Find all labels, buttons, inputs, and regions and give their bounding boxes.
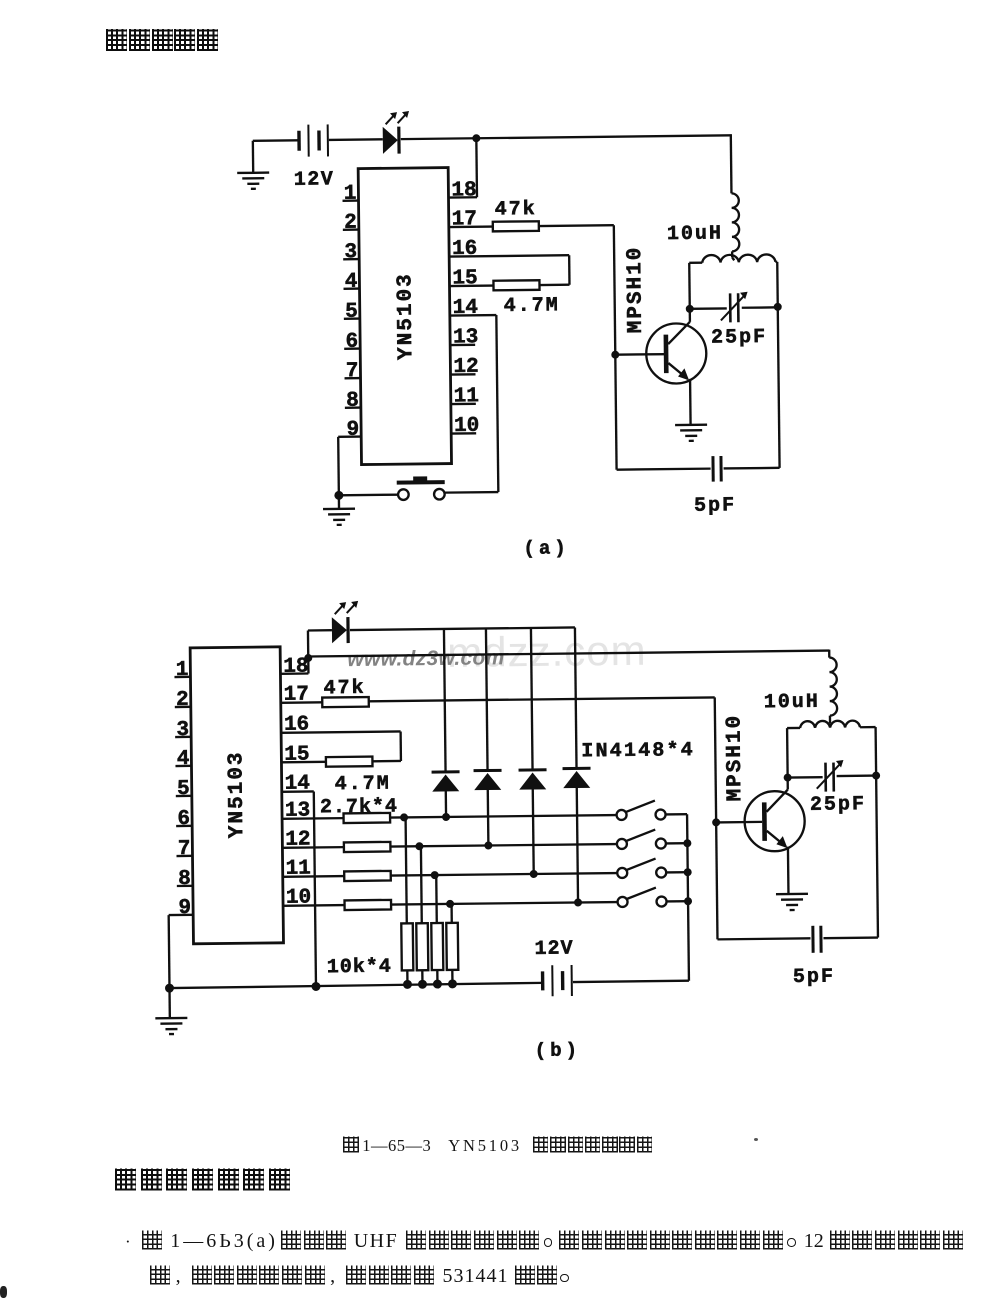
resistor R4 4.7M (326, 756, 401, 796)
bottom wire with 5pF b (717, 938, 877, 940)
svg-text:17: 17 (452, 208, 477, 231)
pin 14 + wire to ground bus (282, 772, 316, 986)
svg-text:4.7M: 4.7M (335, 773, 391, 797)
svg-text:4: 4 (177, 748, 190, 771)
CIRCUIT A SVG (0, 0, 992, 580)
svg-text:13: 13 (453, 326, 478, 349)
paragraph line 2 (150, 1263, 569, 1288)
svg-text:10uH: 10uH (764, 691, 820, 715)
node: tank right b (872, 772, 880, 780)
node: base junction (611, 350, 664, 359)
resistor R12 10k column (446, 904, 458, 984)
svg-text:10: 10 (454, 415, 479, 438)
pin 5 (344, 301, 360, 324)
resistor R10 10k column (415, 846, 428, 984)
inductor L1 10uH (vertical) (666, 193, 739, 261)
svg-text:7: 7 (178, 838, 191, 861)
pin 11 + resistor R7 2.7k (283, 854, 617, 882)
pin 8 (345, 390, 361, 413)
wire 47k to base junction vertical (715, 697, 718, 939)
node: row13 diode junction (442, 813, 450, 821)
svg-text:8: 8 (346, 390, 359, 413)
resistor R11 10k column (431, 875, 444, 984)
svg-text:14: 14 (453, 297, 478, 320)
pin 2 (343, 212, 359, 235)
wire tank left vertical (688, 263, 691, 309)
node: row12 10k junction (415, 842, 423, 850)
pin 1 (342, 183, 358, 206)
svg-text:4: 4 (345, 271, 358, 294)
pin 17 (281, 683, 323, 706)
svg-text:12: 12 (285, 828, 310, 851)
svg-text:15: 15 (452, 267, 477, 290)
pin 12 (450, 356, 478, 379)
switch S4 (617, 858, 688, 878)
IC U1 YN5103 (358, 168, 451, 465)
switch S5 (617, 887, 688, 907)
wire junction down to pin 18 (475, 138, 478, 197)
label 10k*4 (327, 956, 392, 980)
ground (emitter) (675, 425, 707, 441)
node: row13 10k junction (400, 813, 408, 821)
wire collector up to tank (786, 778, 788, 790)
bottom wire with 5pF (617, 468, 780, 470)
pin 15 (449, 267, 493, 290)
svg-text:1: 1 (344, 183, 357, 206)
wire emitter to ground (689, 379, 692, 425)
svg-text:8: 8 (178, 868, 191, 891)
ground (pin 9) (323, 495, 355, 525)
capacitor C3 25pF (trimmer) (787, 760, 876, 818)
node: row12 diode junction (484, 841, 492, 849)
caption under figure (343, 1135, 654, 1156)
pin 17 (449, 208, 493, 231)
wire collector up to tank (689, 309, 691, 322)
svg-text:16: 16 (284, 713, 309, 736)
wire LED to corner (401, 134, 733, 197)
svg-text:MPSH10: MPSH10 (624, 246, 648, 334)
ground (pin 9, circuit b) (155, 988, 188, 1034)
label 2.7k*4 (320, 795, 398, 819)
svg-text:6: 6 (177, 808, 190, 831)
pin 7 (176, 838, 192, 861)
inductor L4 tank coil (horizontal) (787, 720, 876, 728)
svg-text:15: 15 (284, 743, 309, 766)
pin 13 + resistor R5 2.7k (282, 796, 616, 824)
svg-text:1: 1 (176, 659, 189, 682)
label IN4148*4 (581, 739, 695, 763)
svg-text:11: 11 (286, 857, 311, 880)
node: bus row11 (684, 868, 692, 876)
node: bus row10 (684, 897, 692, 905)
svg-text:3: 3 (344, 241, 357, 264)
svg-text:14: 14 (285, 772, 310, 795)
paragraph line 1 (125, 1228, 963, 1253)
pin 2 (175, 689, 191, 712)
svg-text:10: 10 (286, 886, 311, 909)
svg-text:17: 17 (284, 684, 309, 707)
wire ground to battery (253, 139, 298, 142)
svg-text:MPSH10: MPSH10 (723, 714, 747, 802)
diode D8 (517, 628, 548, 874)
pin 6 (176, 808, 192, 831)
wire tank right vertical (777, 262, 779, 468)
capacitor C2 5pF (693, 456, 736, 518)
capacitor C4 5pF (792, 926, 835, 989)
inductor L2 tank coil (horizontal) (689, 254, 777, 263)
pin 3 (343, 241, 359, 264)
resistor R1 47k (493, 197, 614, 231)
node: row11 diode junction (530, 870, 538, 878)
pin 18 (448, 179, 477, 202)
svg-text:5pF: 5pF (694, 494, 736, 517)
section heading (Chinese bold) (115, 1166, 295, 1193)
svg-text:3: 3 (176, 719, 189, 742)
label (b) (535, 1039, 581, 1062)
svg-text:10uH: 10uH (667, 222, 723, 246)
svg-text:7: 7 (346, 360, 359, 383)
pin 14 + wire down to button (450, 297, 499, 493)
svg-text:9: 9 (346, 419, 359, 442)
pin 1 (174, 659, 190, 682)
pin 4 (175, 748, 191, 771)
transistor Q2 MPSH10 (723, 713, 805, 852)
resistor R9 10k column (400, 817, 413, 984)
svg-text:IN4148*4: IN4148*4 (581, 739, 695, 763)
svg-text:4.7M: 4.7M (504, 294, 560, 318)
svg-text:10k*4: 10k*4 (327, 956, 392, 980)
pin 10 (451, 415, 479, 438)
resistor R3 47k (322, 673, 715, 707)
node: base junction b (712, 818, 762, 827)
battery B1 12V (293, 124, 334, 191)
pin 9 + wire to ground (338, 419, 362, 496)
node: 10k bus junctions (403, 979, 457, 989)
ground (battery negative) (237, 141, 270, 189)
svg-text:5pF: 5pF (793, 966, 835, 989)
svg-text:(a): (a) (523, 537, 569, 560)
svg-text:12: 12 (453, 356, 478, 379)
node: tank right (774, 303, 782, 311)
node: pin18 junction (304, 654, 312, 662)
node: tank left b (784, 774, 792, 782)
node: bus row12 (683, 839, 691, 847)
pin 8 (177, 868, 193, 891)
scan speck bottom-left (0, 1286, 7, 1298)
diode D6 (430, 629, 460, 817)
inductor L3 10uH (vertical) (763, 658, 837, 725)
ground bus wire (169, 981, 688, 988)
node: row11 10k junction (431, 871, 439, 879)
svg-text:25pF: 25pF (810, 793, 866, 817)
switch S3 (617, 829, 688, 849)
switch S2 (616, 800, 687, 820)
push button S1 (339, 476, 499, 501)
node: junction at pin18 riser (472, 134, 480, 142)
svg-text:25pF: 25pF (711, 326, 767, 350)
CIRCUIT B SVG (0, 580, 992, 1070)
node: pin9 ground junction (334, 491, 343, 500)
svg-text:16: 16 (452, 238, 477, 261)
wire switch bus (687, 814, 689, 980)
pin 16 + loop wire (449, 237, 570, 286)
LED D5 (308, 601, 359, 644)
svg-text:13: 13 (285, 799, 310, 822)
svg-text:YN5103: YN5103 (225, 750, 249, 838)
wire tank right vertical b (876, 727, 878, 937)
battery B2 12V (534, 938, 574, 997)
wire 47k to base junction (614, 225, 617, 469)
capacitor C1 25pF (trimmer) (690, 291, 779, 349)
page header row (Chinese) (106, 27, 220, 54)
svg-text:5: 5 (345, 301, 358, 324)
wire long feed to tank (from pin18 junction) (308, 650, 829, 664)
svg-text:47k: 47k (495, 198, 537, 221)
pin 4 (343, 271, 359, 294)
svg-text:2: 2 (176, 689, 189, 712)
svg-text:6: 6 (345, 331, 358, 354)
svg-text:5: 5 (177, 778, 190, 801)
node: tank left (686, 305, 694, 313)
pin 10 + resistor R8 2.7k (283, 883, 617, 911)
pin 11 (451, 385, 479, 408)
ground (emitter, circuit b) (776, 894, 808, 910)
LED D1 (383, 111, 410, 154)
svg-text:12V: 12V (534, 938, 573, 961)
watermark www.dz3w.com (347, 627, 647, 677)
pin 18 + riser to LED (280, 631, 309, 679)
svg-text:11: 11 (454, 385, 479, 408)
wire emitter to ground (787, 847, 790, 894)
pin 7 (344, 360, 360, 383)
pin 3 (175, 719, 191, 742)
pin 12 + resistor R6 2.7k (282, 825, 616, 853)
pin 5 (176, 778, 192, 801)
node: row10 diode junction (574, 898, 582, 906)
node: row10 10k junction (446, 900, 454, 908)
pin 9 + wire to ground bus (168, 897, 194, 988)
pin 15 (281, 743, 326, 767)
diode D7 (472, 628, 502, 845)
wire LED to diode bus (350, 627, 575, 630)
IC U2 YN5103 (190, 647, 283, 944)
wire battery to LED (329, 138, 383, 141)
svg-text:47k: 47k (323, 677, 365, 700)
svg-text:9: 9 (178, 897, 191, 920)
svg-text:www.dz3w.com: www.dz3w.com (347, 646, 504, 671)
label (a) (523, 537, 569, 560)
node: pin14 bus (311, 982, 320, 991)
svg-text:YN5103: YN5103 (394, 272, 418, 360)
pin 6 (344, 331, 360, 354)
diode D9 (561, 627, 592, 902)
svg-text:2: 2 (344, 212, 357, 235)
transistor Q1 MPSH10 (624, 245, 707, 384)
pin 13 (450, 326, 478, 349)
svg-text:12V: 12V (294, 168, 335, 191)
svg-text:(b): (b) (535, 1039, 581, 1062)
svg-text:18: 18 (451, 179, 476, 202)
resistor R2 4.7M (493, 280, 569, 318)
scan speck near caption (754, 1138, 758, 1141)
pin 16 + loop (281, 712, 401, 762)
node: ground bus left (165, 984, 174, 993)
wire tank left vertical b (786, 728, 789, 777)
